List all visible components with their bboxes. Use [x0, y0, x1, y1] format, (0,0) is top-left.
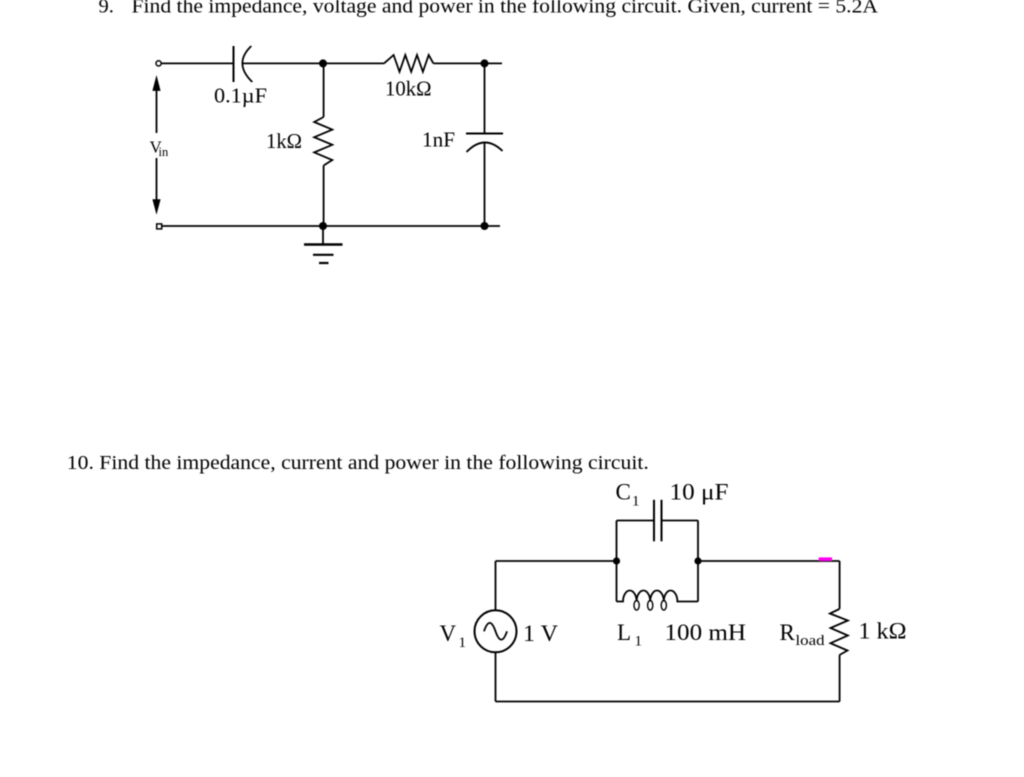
- label Vin: [150, 138, 169, 160]
- svg-text:9.: 9.: [99, 0, 114, 18]
- svg-text:1nF: 1nF: [422, 128, 455, 152]
- wire node A to resistor: [323, 62, 384, 64]
- wire resistor to node B: [433, 62, 502, 64]
- capacitor 1nF: [466, 134, 503, 153]
- node LC right junction: [694, 557, 701, 564]
- label C1: [616, 480, 640, 510]
- wire right vertical top: [839, 561, 841, 609]
- node A junction: [319, 59, 327, 67]
- svg-text:Find the impedance, voltage an: Find the impedance, voltage and power in…: [132, 0, 879, 18]
- svg-text:10. Find the impedance, curren: 10. Find the impedance, current and powe…: [67, 452, 649, 474]
- svg-text:0.1µF: 0.1µF: [214, 84, 267, 108]
- svg-text:1: 1: [635, 634, 643, 650]
- highlight magenta: [819, 557, 832, 561]
- wire 1k resistor down: [323, 166, 325, 227]
- label L1: [617, 620, 642, 650]
- svg-text:10kΩ: 10kΩ: [385, 77, 432, 101]
- resistor 1kOhm: [314, 117, 332, 166]
- Vin arrow double-headed: [152, 75, 160, 215]
- capacitor C1: [654, 500, 662, 542]
- svg-text:10 μF: 10 μF: [670, 480, 729, 505]
- svg-text:1 kΩ: 1 kΩ: [859, 619, 907, 644]
- terminal input top: [156, 61, 161, 66]
- wire right vertical bottom: [839, 655, 841, 702]
- wire cap to node A: [243, 62, 321, 64]
- wire node B down: [484, 63, 486, 133]
- wire main right: [698, 560, 840, 562]
- resistor 10kOhm: [384, 55, 433, 72]
- svg-text:1 V: 1 V: [523, 621, 558, 646]
- svg-text:1: 1: [459, 635, 467, 651]
- svg-text:1: 1: [632, 494, 640, 510]
- node bottom right junction: [481, 222, 489, 230]
- ground: [304, 226, 343, 263]
- svg-text:V: V: [440, 621, 457, 646]
- wire bottom rail circuit 2: [496, 701, 840, 703]
- wire main left: [496, 560, 617, 562]
- wire top branch left: [617, 520, 655, 522]
- node LC left junction: [613, 557, 620, 564]
- label V1: [440, 621, 467, 651]
- wire V1 bottom down: [495, 652, 497, 701]
- capacitor C 0.1uF: [234, 46, 253, 82]
- svg-text:R: R: [780, 620, 796, 645]
- label Rload: [780, 620, 826, 649]
- wire V1 top up: [495, 561, 497, 610]
- terminal input bottom square: [157, 224, 162, 229]
- svg-text:load: load: [796, 633, 826, 649]
- svg-text:1kΩ: 1kΩ: [266, 129, 302, 153]
- wire 1nF to bottom: [484, 143, 486, 227]
- svg-text:in: in: [159, 145, 169, 159]
- wire LC right vertical: [697, 521, 699, 602]
- svg-text:C: C: [616, 480, 631, 505]
- inductor L1: [617, 590, 699, 610]
- svg-text:L: L: [617, 620, 631, 645]
- problem 9 text: [99, 0, 879, 18]
- node B junction: [481, 59, 489, 67]
- wire bottom rail circuit 1: [161, 225, 500, 227]
- svg-text:100 mH: 100 mH: [665, 620, 747, 645]
- wire LC left vertical: [616, 521, 618, 602]
- wire top-left: [162, 62, 234, 64]
- resistor Rload: [830, 609, 848, 655]
- wire top branch right: [662, 520, 699, 522]
- wire node A down to resistor 1k: [323, 63, 325, 117]
- voltage source V1: [475, 610, 517, 652]
- node bottom middle junction: [319, 222, 327, 230]
